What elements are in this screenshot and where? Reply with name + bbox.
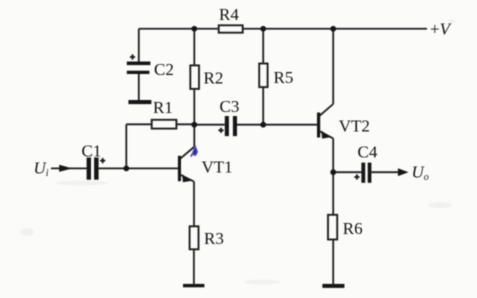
svg-text:R1: R1 — [153, 98, 173, 117]
svg-text:C1: C1 — [82, 142, 102, 161]
svg-text:C3: C3 — [220, 97, 240, 116]
svg-text:VT2: VT2 — [339, 116, 370, 135]
svg-text:R5: R5 — [274, 68, 294, 87]
svg-text:C4: C4 — [358, 143, 378, 162]
svg-text:Ui: Ui — [34, 158, 49, 179]
svg-text:R4: R4 — [219, 5, 239, 24]
svg-text:R3: R3 — [204, 229, 224, 248]
svg-text:+V: +V — [430, 20, 453, 39]
svg-text:VT1: VT1 — [202, 157, 233, 176]
svg-text:C2: C2 — [154, 60, 174, 79]
svg-text:Uo: Uo — [412, 163, 429, 184]
svg-text:R2: R2 — [204, 69, 224, 88]
svg-text:R6: R6 — [343, 219, 363, 238]
